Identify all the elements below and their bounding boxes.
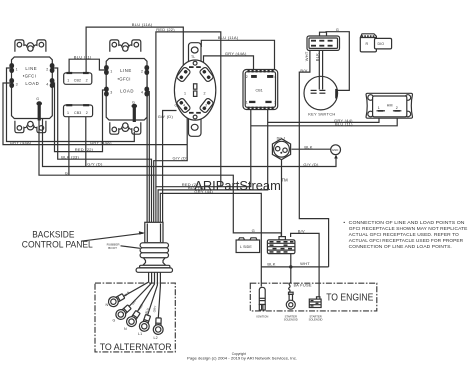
svg-text:1: 1 xyxy=(110,70,112,74)
svg-text:3: 3 xyxy=(205,104,207,108)
svg-text:DIO: DIO xyxy=(378,42,385,46)
svg-text:2: 2 xyxy=(46,68,48,72)
svg-text:G/Y (D): G/Y (D) xyxy=(158,114,174,119)
svg-text:BACKSIDE: BACKSIDE xyxy=(32,230,74,240)
svg-text:L1: L1 xyxy=(138,332,142,336)
svg-text:4: 4 xyxy=(183,104,185,108)
svg-text:G: G xyxy=(252,228,255,233)
svg-text:G/Y (D): G/Y (D) xyxy=(303,162,319,167)
svg-text:BLU (11A): BLU (11A) xyxy=(132,22,153,27)
svg-text:CONNECTION OF LINE AND LOAD PO: CONNECTION OF LINE AND LOAD POINTS. xyxy=(349,244,452,250)
svg-text:G/Y (D): G/Y (D) xyxy=(87,161,103,166)
svg-text:LOAD: LOAD xyxy=(120,89,134,94)
svg-text:G: G xyxy=(36,97,39,101)
svg-text:1: 1 xyxy=(378,106,380,110)
svg-text:ACTUAL GFCI RECEPTACLE USED FO: ACTUAL GFCI RECEPTACLE USED FOR PROPER xyxy=(349,238,464,244)
svg-text:LINE: LINE xyxy=(25,66,37,71)
svg-text:4: 4 xyxy=(141,91,143,95)
svg-text:KEY SWITCH: KEY SWITCH xyxy=(308,111,335,116)
svg-text:2: 2 xyxy=(86,79,88,83)
svg-text:SOLENOID: SOLENOID xyxy=(309,318,323,322)
svg-text:TO ENGINE: TO ENGINE xyxy=(326,293,374,304)
svg-text:GRY (44A): GRY (44A) xyxy=(225,51,247,56)
svg-text:BOOT: BOOT xyxy=(108,246,117,250)
svg-text:BLU (11): BLU (11) xyxy=(335,121,353,126)
svg-text:BLK: BLK xyxy=(314,53,319,61)
svg-text:Copyright: Copyright xyxy=(232,352,246,356)
svg-text:R: R xyxy=(366,42,369,46)
svg-text:ARIPartStream: ARIPartStream xyxy=(194,178,280,193)
svg-text:2: 2 xyxy=(204,92,206,96)
svg-text:2: 2 xyxy=(396,106,398,110)
svg-text:RED (22): RED (22) xyxy=(75,147,94,152)
svg-text:G/Y (D): G/Y (D) xyxy=(173,156,189,161)
svg-text:2: 2 xyxy=(86,111,88,115)
svg-text:G: G xyxy=(113,319,116,323)
svg-text:8A FUSE: 8A FUSE xyxy=(294,282,312,287)
svg-text:4: 4 xyxy=(46,83,48,87)
svg-text:L SIDE: L SIDE xyxy=(240,245,252,249)
svg-text:CB2: CB2 xyxy=(74,79,81,83)
svg-text:•GFCI: •GFCI xyxy=(118,77,131,82)
svg-text:LOAD: LOAD xyxy=(25,81,39,86)
svg-text:2: 2 xyxy=(141,70,143,74)
svg-text:GFCI RECEPTACLE SHOWN MAY NOT: GFCI RECEPTACLE SHOWN MAY NOT REPLICATE xyxy=(349,226,468,232)
svg-text:1: 1 xyxy=(67,111,69,115)
svg-text:DC.J: DC.J xyxy=(277,137,285,141)
svg-text:G: G xyxy=(336,27,339,32)
svg-text:•GFCI: •GFCI xyxy=(23,74,36,79)
svg-text:BLK (33): BLK (33) xyxy=(61,154,79,159)
svg-text:CONNECTION OF LINE AND LOAD PO: CONNECTION OF LINE AND LOAD POINTS ON xyxy=(349,220,465,226)
svg-text:Page design (c) 2004 - 2019 by: Page design (c) 2004 - 2019 by ARI Netwo… xyxy=(187,356,297,360)
svg-text:•: • xyxy=(343,221,345,226)
svg-text:TL: TL xyxy=(191,55,195,59)
svg-text:BLU (11A): BLU (11A) xyxy=(218,35,239,40)
svg-text:3: 3 xyxy=(110,91,112,95)
svg-text:GRY (44A): GRY (44A) xyxy=(10,140,32,145)
svg-text:CB3: CB3 xyxy=(74,111,81,115)
svg-text:RED (22): RED (22) xyxy=(156,27,175,32)
svg-text:2: 2 xyxy=(246,75,248,79)
svg-text:BLK: BLK xyxy=(304,144,312,149)
svg-text:TO ALTERNATOR: TO ALTERNATOR xyxy=(100,342,172,352)
svg-text:WHT: WHT xyxy=(300,261,310,266)
svg-text:4: 4 xyxy=(274,75,276,79)
svg-text:BLU (11): BLU (11) xyxy=(74,54,92,59)
svg-text:3: 3 xyxy=(16,83,18,87)
svg-text:ACTUAL GFCI RECEPTACLE USED.: ACTUAL GFCI RECEPTACLE USED. REFER TO xyxy=(349,232,459,238)
svg-text:G: G xyxy=(175,104,178,108)
svg-text:G: G xyxy=(65,170,68,175)
svg-text:B/V: B/V xyxy=(300,68,307,73)
svg-text:WHT: WHT xyxy=(304,51,309,61)
svg-text:1: 1 xyxy=(184,92,186,96)
svg-text:CB1: CB1 xyxy=(256,89,263,93)
svg-text:B/V: B/V xyxy=(298,229,305,234)
svg-text:GND: GND xyxy=(332,148,338,152)
svg-text:IGNITION: IGNITION xyxy=(256,315,268,319)
svg-text:HM: HM xyxy=(387,103,393,107)
svg-text:1: 1 xyxy=(246,101,248,105)
svg-text:L2: L2 xyxy=(154,336,158,340)
svg-text:3: 3 xyxy=(274,101,276,105)
svg-text:N: N xyxy=(124,327,127,331)
svg-text:1: 1 xyxy=(16,68,18,72)
svg-text:N: N xyxy=(106,303,109,307)
svg-text:TM: TM xyxy=(281,177,288,182)
svg-text:BLK: BLK xyxy=(267,262,275,267)
svg-text:LINE: LINE xyxy=(120,68,132,73)
svg-text:1: 1 xyxy=(67,79,69,83)
svg-text:SOLENOID: SOLENOID xyxy=(284,318,298,322)
svg-text:GRY (44A): GRY (44A) xyxy=(90,140,112,145)
